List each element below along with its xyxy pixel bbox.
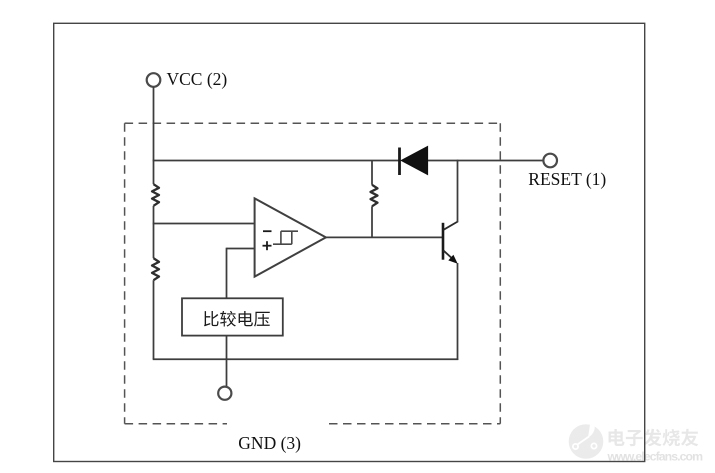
resistor R3 (pull-up) (371, 185, 378, 206)
svg-text:GND (3): GND (3) (238, 433, 301, 453)
outer border frame (54, 23, 645, 461)
IC boundary dashed box (125, 123, 501, 424)
diode D1 cathode bar (398, 148, 401, 176)
wire top rail left (VCC to diode) (153, 160, 399, 162)
transistor Q1 emitter arrow (448, 255, 457, 264)
hysteresis symbol (273, 231, 298, 244)
wire reference drop to box (226, 248, 228, 299)
plus input sign (263, 241, 272, 250)
wire comparator output (326, 236, 443, 238)
wire left rail mid (153, 206, 155, 258)
minus input sign (263, 230, 272, 232)
transistor Q1 collector diagonal (444, 221, 459, 229)
terminal VCC (2) (147, 73, 161, 87)
wire box to GND (226, 336, 228, 387)
terminal GND (3) (218, 387, 231, 400)
wire pull-up resistor top lead (371, 161, 373, 185)
wire bottom rail (153, 358, 459, 360)
wire top rail right (diode to RESET) (428, 160, 544, 162)
diode D1 body (401, 146, 427, 174)
transistor Q1 emitter diagonal (444, 251, 456, 261)
wire left rail upper (153, 160, 155, 185)
svg-text:VCC (2): VCC (2) (167, 69, 228, 89)
wire divider tap to comparator inverting input (153, 223, 255, 225)
resistor R1 (upper divider) (152, 184, 159, 206)
terminal RESET (1) (543, 154, 557, 168)
svg-text:RESET (1): RESET (1) (528, 169, 606, 189)
wire VCC drop (153, 87, 155, 161)
wire collector vertical (457, 160, 459, 222)
wire emitter vertical (457, 263, 459, 360)
wire reference to comparator non-inverting input (227, 248, 256, 250)
transistor Q1 base bar (442, 223, 445, 260)
label comparison voltage CJK (204, 311, 270, 327)
wire left rail lower (153, 280, 155, 359)
resistor R2 (lower divider) (152, 258, 159, 280)
wire pull-up resistor bottom lead (371, 206, 373, 238)
watermark logo circle (elecfans) (569, 421, 604, 459)
op-amp U1 comparator triangle (255, 198, 326, 276)
watermark text elecfans CJK (609, 429, 699, 447)
reference voltage box (182, 298, 283, 335)
